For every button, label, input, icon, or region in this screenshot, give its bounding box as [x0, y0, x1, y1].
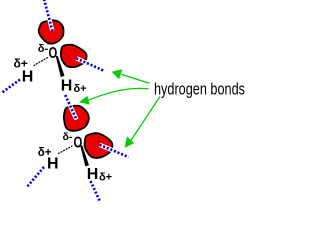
hydrogen bond dash d5 from lobe 2b — [100, 145, 129, 157]
green pointer arrow a2 (to dash d4) — [79, 88, 149, 104]
lone pair lobe 1a (top) of molecule 1 — [39, 20, 64, 43]
water molecule 1 (top) — [14, 20, 87, 94]
dotted receding bond O1-H1 — [34, 58, 48, 66]
hydrogen bond dash d4 from H2 into lobe 2a — [65, 95, 76, 120]
svg-text:hydrogen bonds: hydrogen bonds — [154, 79, 245, 98]
hydrogen bond dash d2 from lobe 1b — [76, 58, 104, 71]
svg-text:H: H — [61, 77, 73, 94]
green pointer arrow a1 (to dash d2) — [112, 69, 150, 83]
lone pair lobe 2a (top) of molecule 2 — [64, 106, 89, 131]
svg-text:H: H — [47, 156, 59, 173]
svg-text:H: H — [22, 69, 34, 86]
dotted receding bond O2-H3 — [59, 146, 74, 154]
svg-text:δ-: δ- — [38, 43, 49, 55]
svg-text:δ-: δ- — [63, 131, 73, 143]
wedge bond O2-H4 — [80, 145, 89, 166]
hydrogen bond dash d6 from H3 — [27, 167, 45, 188]
svg-text:O: O — [74, 135, 83, 152]
svg-text:δ+: δ+ — [74, 83, 87, 95]
lone pair lobe 2b (right) of molecule 2 — [85, 133, 113, 158]
hydrogen bond dash d3 from H1 — [2, 80, 21, 94]
lone pair lobe 1b (right) of molecule 1 — [61, 45, 87, 67]
svg-text:O: O — [49, 45, 58, 62]
svg-text:δ+: δ+ — [99, 172, 112, 184]
hydrogen bond dashes (blue), each with white underlay — [2, 0, 129, 202]
green pointer arrow a3 (to dash d5) — [125, 97, 161, 148]
water molecule 2 (bottom) — [38, 106, 113, 184]
hydrogen bond dash d1 into lobe 1a — [44, 0, 52, 31]
hydrogen bond dash d7 from H4 — [91, 181, 101, 202]
wedge bond O1-H2 — [56, 56, 65, 77]
